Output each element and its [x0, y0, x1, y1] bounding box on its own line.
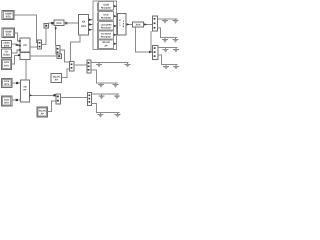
- wire E2 row3: [158, 47, 178, 49]
- connector B7-AB: [16, 99, 18, 101]
- wire combiner to N1: [30, 46, 38, 48]
- antenna row7 a: [98, 113, 104, 118]
- box B3 cdma2000: [2, 41, 12, 48]
- svg-text:AB: AB: [23, 86, 27, 89]
- box T interface: [117, 14, 126, 35]
- svg-text:2000: 2000: [4, 45, 10, 48]
- narrow box E: [153, 16, 158, 31]
- svg-text:Receptor: Receptor: [101, 17, 111, 20]
- antenna row4r b: [173, 65, 179, 70]
- svg-text:DCS: DCS: [4, 98, 9, 101]
- antenna row3 a: [163, 48, 169, 53]
- antenna row5 b: [113, 83, 119, 88]
- svg-text:AP: AP: [104, 44, 108, 47]
- svg-text:BTS: BTS: [4, 83, 9, 86]
- narrow box D: [88, 93, 92, 106]
- arrows J to frame: [89, 19, 93, 31]
- wire WLAN1 to L: [62, 69, 70, 78]
- wire AB to C: [30, 94, 56, 96]
- box WLAN1: [51, 74, 62, 83]
- wire T to F with arrow: [126, 23, 133, 25]
- svg-text:BTS: BTS: [4, 65, 9, 68]
- svg-text:BTS: BTS: [4, 102, 9, 105]
- svg-text:XXX: XXX: [56, 22, 61, 25]
- wire F to E with arrow: [144, 23, 153, 25]
- antenna row1 b: [173, 19, 179, 24]
- svg-text:XX: XX: [82, 21, 86, 24]
- svg-text:Receptor: Receptor: [101, 36, 111, 39]
- antenna row4 a: [96, 63, 102, 68]
- receptor S2 DCS: [98, 12, 114, 21]
- box Bx below combiner: [18, 52, 30, 59]
- narrow box L: [70, 62, 74, 71]
- wire E2 row4r jog: [158, 55, 178, 65]
- combiner CB: [19, 38, 30, 52]
- wire I to L: [60, 50, 70, 62]
- svg-text:BTS: BTS: [6, 33, 11, 36]
- wire E down to E2 feed junction: [150, 31, 152, 52]
- wire C to D: [60, 96, 87, 98]
- wire row6 from D: [91, 93, 119, 95]
- svg-text:XX: XX: [23, 44, 27, 47]
- box B4 TD-SCDMA: [2, 49, 12, 58]
- svg-text:XXX: XXX: [81, 25, 86, 28]
- svg-text:SCMA: SCMA: [3, 54, 10, 57]
- antenna row6 a: [99, 94, 105, 99]
- frame around receptors: [93, 1, 117, 50]
- receptor S4 TD-SCMA: [98, 31, 114, 40]
- wire K to H: [49, 22, 55, 24]
- antenna row1 a: [162, 19, 168, 24]
- wire row7 from D: [91, 104, 119, 113]
- box B7 DCS BTS: [1, 96, 12, 106]
- wire E row1: [158, 18, 178, 20]
- svg-text:Receptor: Receptor: [101, 7, 111, 10]
- narrow box N1: [38, 40, 42, 49]
- antenna row5 a: [98, 83, 104, 88]
- wire B4 to combiner: [12, 50, 20, 53]
- narrow box E2: [153, 46, 158, 60]
- connector after H: [65, 22, 67, 24]
- wire F down to E2 with arrow: [136, 27, 153, 53]
- wire E row2 jog: [158, 28, 178, 38]
- wire H to J: [64, 22, 79, 24]
- wire B6 to AB: [12, 82, 21, 84]
- wire row5 from M: [91, 70, 118, 83]
- antenna row6 b: [114, 94, 120, 99]
- wire B2 to combiner: [15, 33, 20, 41]
- wire Bx down to AB: [25, 59, 27, 80]
- svg-text:WLAN: WLAN: [53, 75, 60, 78]
- wire B7 to AB: [12, 99, 21, 101]
- wire J down to L: [71, 35, 81, 62]
- box B5 DCS BTS: [2, 59, 12, 70]
- box B1 GSM BTS: [2, 11, 14, 20]
- wire B1 to N1: [14, 15, 38, 43]
- box AB: [21, 80, 30, 102]
- receptor S3 cdma2000: [98, 22, 114, 31]
- receptor S5 WLAN AP: [98, 39, 114, 49]
- wire L to M: [74, 64, 87, 66]
- wire H down to I: [55, 26, 57, 46]
- svg-text:AP: AP: [41, 113, 45, 116]
- box WLAN2: [37, 107, 48, 117]
- wire Bx to I: [30, 55, 57, 57]
- narrow box M: [87, 60, 91, 73]
- wire row4 trunk: [91, 62, 129, 64]
- connector B6-AB: [16, 82, 18, 84]
- narrow box I: [56, 46, 60, 54]
- wire N1 up to K: [42, 28, 47, 45]
- arrow below H: [55, 28, 57, 31]
- connector box K2: [57, 54, 62, 59]
- antenna row2 a: [162, 38, 168, 43]
- arrow B3 input: [17, 44, 19, 46]
- wire B5 to Bx: [12, 55, 18, 64]
- svg-text:WLAN: WLAN: [39, 109, 46, 112]
- wire WLAN2 to C: [48, 101, 56, 112]
- box H: [54, 20, 64, 26]
- box B2 GSM BTS: [2, 28, 14, 38]
- antenna row4 b: [125, 63, 131, 68]
- antenna row3 b: [173, 48, 179, 53]
- connector into H: [51, 22, 53, 24]
- wire B3 to combiner: [12, 44, 20, 46]
- narrow box C: [56, 94, 61, 104]
- antenna row2 b: [173, 38, 179, 43]
- box J: [79, 15, 89, 36]
- svg-text:XXX: XXX: [135, 24, 140, 27]
- box F: [133, 22, 144, 27]
- receptor S1 GSM: [98, 2, 114, 11]
- box B6 DCS BTS: [2, 78, 13, 87]
- svg-text:BTS: BTS: [6, 16, 11, 19]
- antenna row7 b: [115, 113, 121, 118]
- svg-text:Receptor: Receptor: [101, 27, 111, 30]
- svg-text:AP: AP: [55, 79, 59, 82]
- svg-text:DCS: DCS: [4, 80, 9, 83]
- arrows receptors to T: [114, 5, 117, 45]
- connector K: [44, 24, 49, 29]
- antenna row4r a: [163, 65, 169, 70]
